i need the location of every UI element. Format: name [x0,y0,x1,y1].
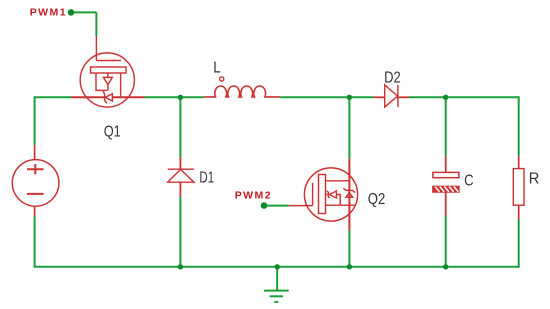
Q2 middle stub [326,194,328,196]
Q2 channel plate [319,175,326,214]
svg-text:C: C [464,172,474,189]
Q1 gate line [96,60,121,62]
C bottom lead [445,192,447,216]
Q1 channel plate [91,67,127,73]
svg-text:Q1: Q1 [104,124,121,141]
Q1 funnel arrow [103,77,112,84]
resistor R [513,156,524,219]
ground [264,267,289,302]
Q2 body-diode triangle [329,191,336,198]
wire bottom rail [35,266,519,268]
Q1 circle [80,53,134,107]
Q2 bottom stub [326,204,356,206]
svg-text:PWM1: PWM1 [30,7,67,19]
wire D1 column [179,97,181,266]
Q2 gate line [312,183,314,206]
svg-text:D1: D1 [199,170,214,187]
inductor L polarity dot [220,77,224,81]
Q2 channel wire segment [348,159,350,231]
Q1 funnel tail [107,85,109,91]
C bottom plate [433,186,459,192]
voltage source minus [27,193,44,195]
C top lead [445,156,447,172]
Q1 body-diode bar [103,91,107,103]
D1 triangle [168,169,194,182]
wire PWM2 to Q2 gate [264,205,289,207]
Q1 main wire segment [72,96,145,98]
D2 cathode lead [398,96,409,98]
R bottom lead [518,205,520,219]
Q2 body-diode bar [327,191,330,198]
node dot bottom D1 [178,264,183,269]
Q2 channel arrow [346,193,353,197]
D1 cathode bar [168,168,194,170]
Q2 gate lead [289,205,313,207]
voltage source plus [27,164,44,174]
voltage source V leads [34,145,36,216]
D2 cathode bar [397,85,399,107]
svg-text:L: L [213,60,221,77]
Q2 channel bar [343,188,355,192]
Q1 gate lead [95,36,97,61]
Q2 circle [304,168,357,221]
Q1 body-diode triangle [105,94,112,101]
wire Q2 column [348,97,350,266]
C bottom plate hatch [435,187,458,192]
C top plate [433,172,459,177]
Q1 right stub [120,73,122,97]
wire right rail (R column) [518,96,520,267]
D1 cathode lead [179,182,181,197]
node PWM1 dot [68,9,75,16]
voltage source V circle [12,160,59,207]
R body [513,169,524,206]
Q1 left stub [96,73,107,90]
capacitor C [433,156,459,216]
Q1 middle stub [107,73,109,77]
diode D2 [373,85,409,107]
D2 triangle [385,85,398,107]
diode D1 [168,158,194,197]
node dot top Q2 [347,95,352,100]
svg-text:D2: D2 [384,70,401,87]
node PWM2 dot [261,202,268,209]
node dot bottom Q2 [347,264,352,269]
wire C column [445,97,447,266]
node dot bottom C [443,264,448,269]
D1 anode lead [179,158,181,170]
node dot ground [275,264,280,269]
D2 anode lead [373,96,384,98]
inductor L [204,86,280,97]
wire top rail green [35,96,519,98]
svg-text:R: R [529,171,540,188]
svg-text:Q2: Q2 [368,191,386,208]
Q2 step link [336,195,340,206]
node dot top C [443,95,448,100]
R top lead [518,156,520,168]
transistor Q1 [72,36,145,107]
svg-text:PWM2: PWM2 [235,190,272,202]
transistor Q2 [289,159,358,231]
wire left rail [34,96,36,267]
node dot top D1 [178,95,183,100]
wire PWM1 to Q1 gate [71,12,96,36]
Q2 top stub [326,180,350,182]
